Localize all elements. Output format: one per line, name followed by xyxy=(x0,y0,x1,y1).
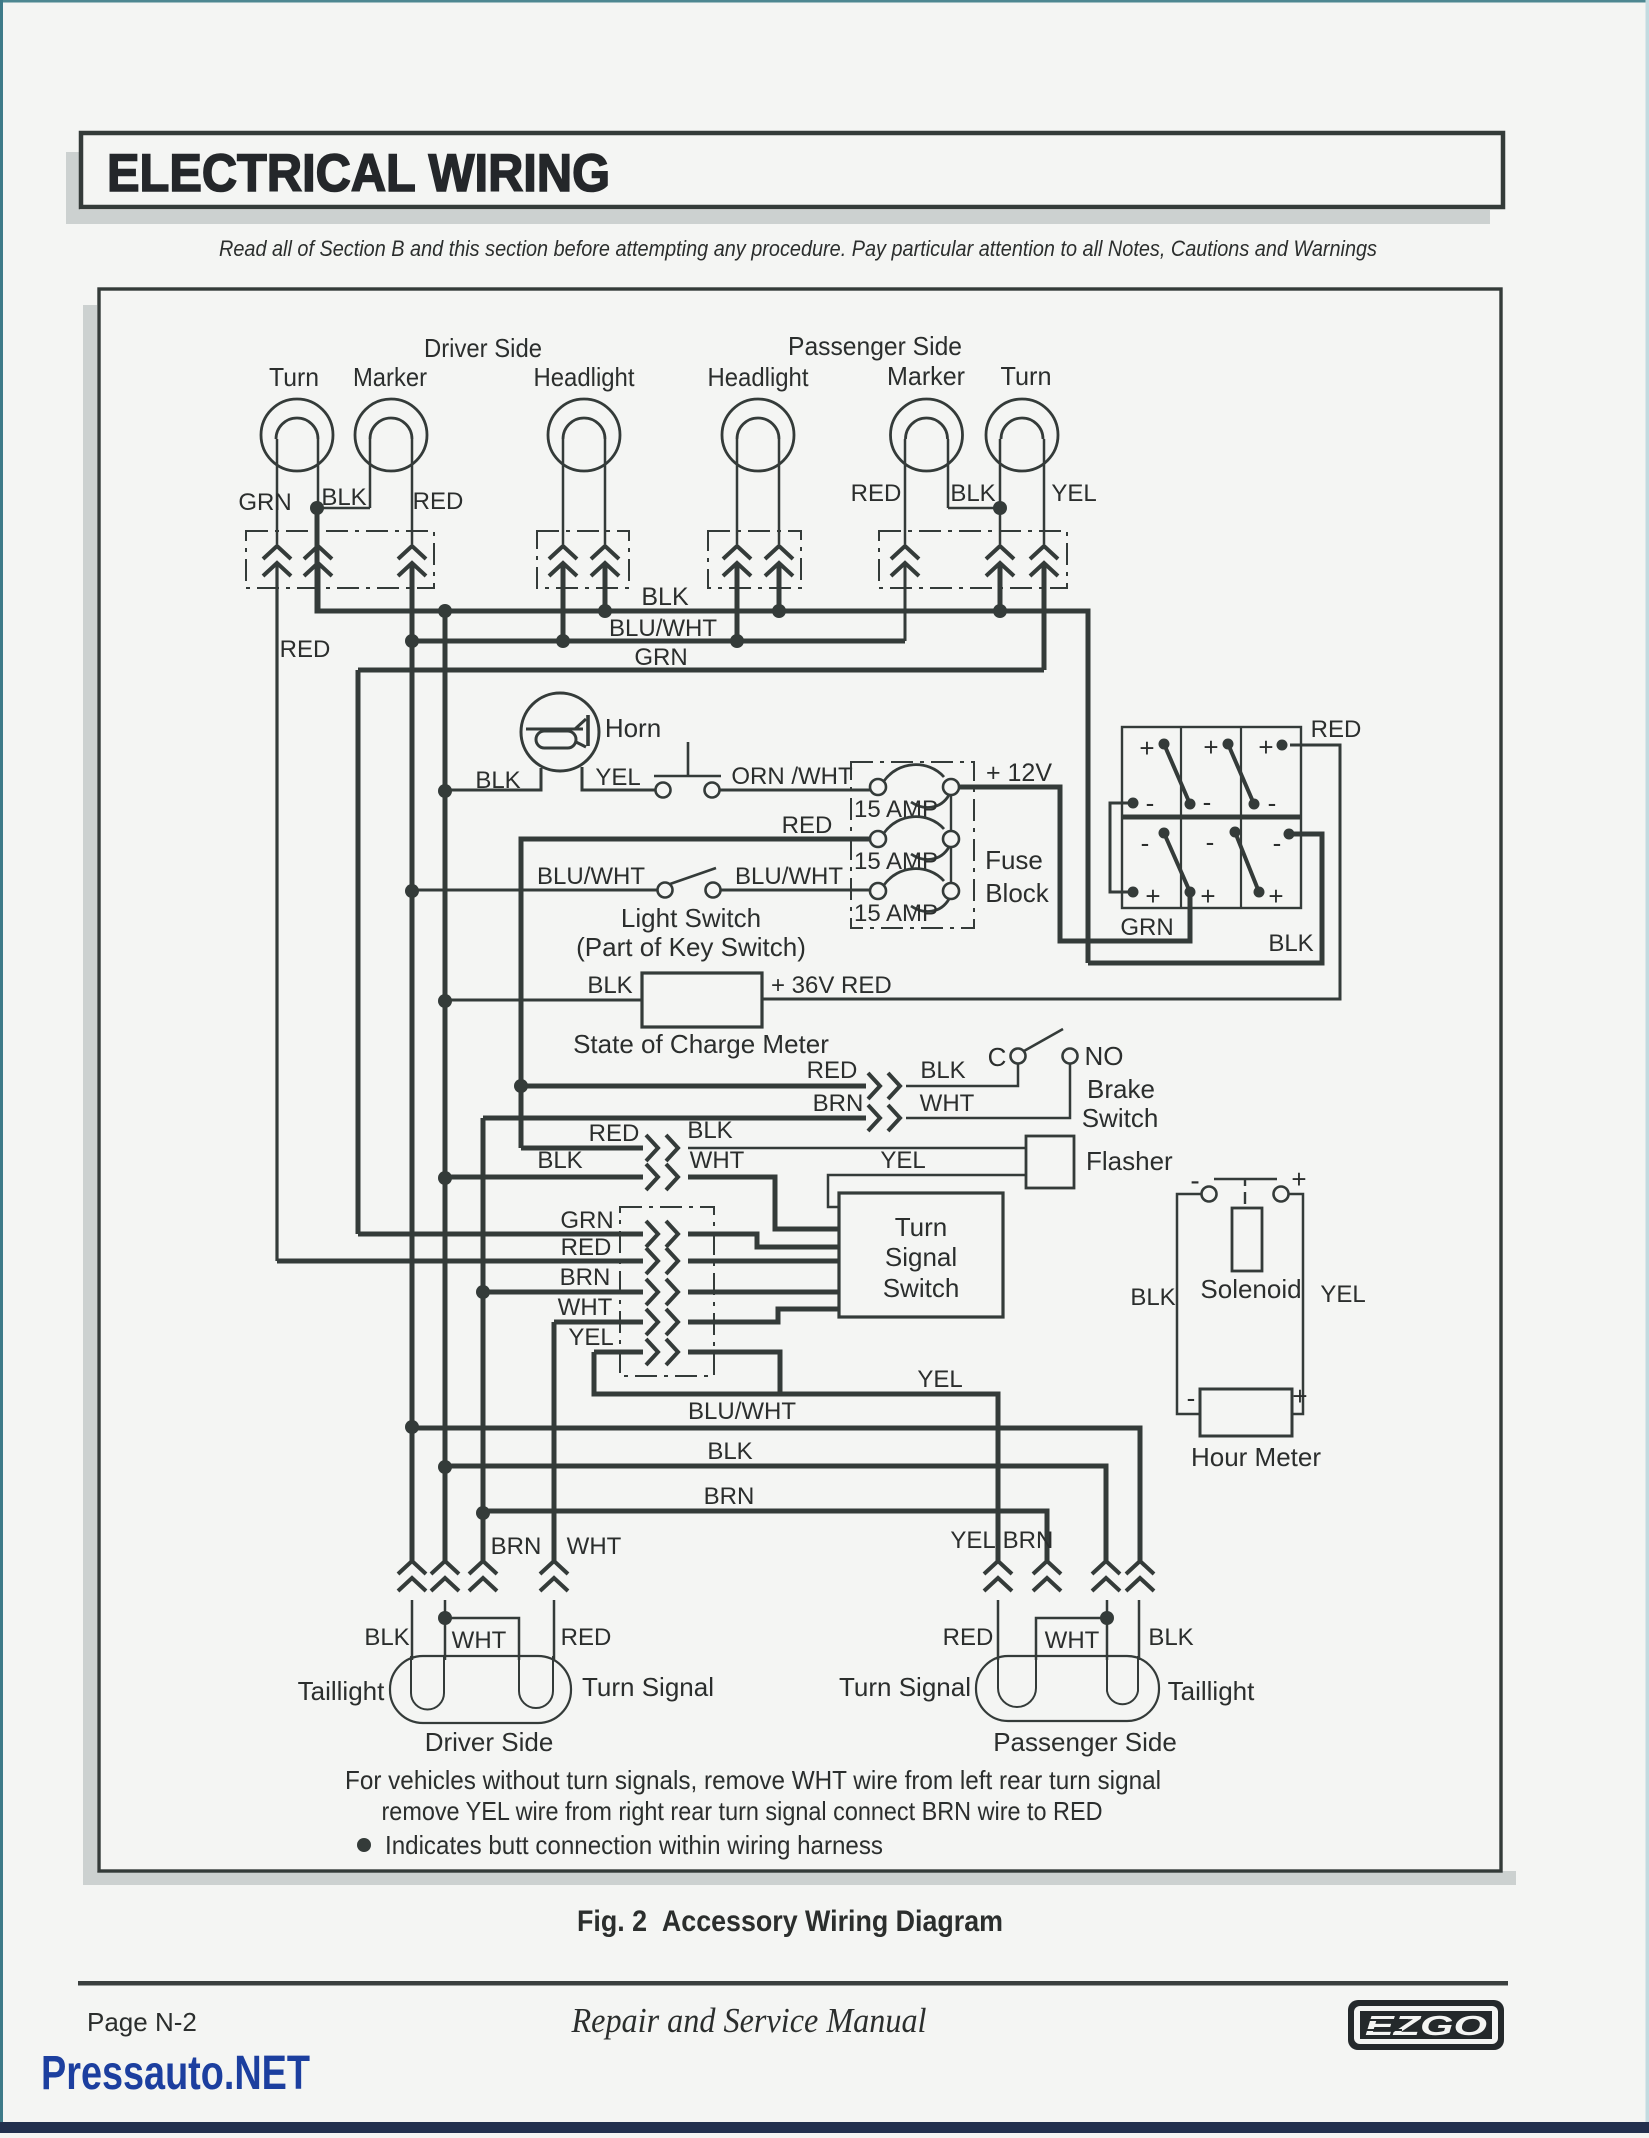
wire horn right leg YEL xyxy=(582,767,656,790)
wire BLU/WHT to fuse xyxy=(720,889,870,892)
svg-text:Block: Block xyxy=(985,878,1050,908)
battery bank dividers xyxy=(1180,727,1182,908)
svg-text:BLU/WHT: BLU/WHT xyxy=(735,863,843,890)
svg-text:Horn: Horn xyxy=(605,713,661,743)
svg-text:YEL: YEL xyxy=(1051,480,1096,507)
svg-text:YEL: YEL xyxy=(1320,1281,1365,1308)
svg-text:remove YEL wire from right rea: remove YEL wire from right rear turn sig… xyxy=(382,1796,1103,1826)
connector brake BRN/WHT xyxy=(868,1105,900,1131)
svg-text:BLK: BLK xyxy=(1130,1284,1175,1311)
connector flasher RED/BLK xyxy=(646,1135,678,1161)
solenoid terminals xyxy=(1202,1187,1217,1202)
wire YEL row xyxy=(594,1350,643,1355)
battery bank outline xyxy=(1122,727,1301,908)
svg-text:Taillight: Taillight xyxy=(298,1676,385,1706)
lamp driver headlight xyxy=(548,399,620,471)
svg-text:BRN: BRN xyxy=(491,1533,542,1560)
passenger rear lamp housing xyxy=(976,1656,1159,1721)
svg-text:-: - xyxy=(1190,1165,1199,1196)
wire horn left leg BLK xyxy=(445,768,541,790)
svg-text:Passenger Side: Passenger Side xyxy=(993,1727,1177,1757)
svg-text:-: - xyxy=(1203,787,1212,817)
svg-text:WHT: WHT xyxy=(452,1627,507,1654)
wire driver marker right lead / BLU-WHT trunk xyxy=(411,439,414,544)
svg-text:-: - xyxy=(1187,1383,1196,1413)
EZGO logo xyxy=(1348,2000,1504,2050)
horn button switch xyxy=(656,783,671,798)
svg-text:BLK: BLK xyxy=(687,1117,732,1144)
wire BLK long run xyxy=(445,1466,1106,1561)
svg-text:WHT: WHT xyxy=(690,1147,745,1174)
battery jumper top 1 xyxy=(1164,744,1190,804)
wire BLU/WHT to light switch xyxy=(412,889,658,892)
svg-text:BRN: BRN xyxy=(1003,1527,1054,1554)
solenoid coil xyxy=(1232,1208,1262,1271)
wire GRN bus drop xyxy=(356,670,361,1234)
svg-text:-: - xyxy=(1268,788,1277,818)
svg-text:Page N-2: Page N-2 xyxy=(87,2007,197,2037)
connector box driver lamps xyxy=(246,531,434,588)
wire driver headlight right lead xyxy=(604,439,607,544)
connector pin BRN xyxy=(646,1279,678,1305)
horn xyxy=(521,693,599,771)
svg-text:Headlight: Headlight xyxy=(534,362,636,392)
svg-text:BLU/WHT: BLU/WHT xyxy=(688,1398,796,1425)
wire passenger turn right lead YEL xyxy=(1043,439,1046,544)
wire driver marker left lead xyxy=(369,439,372,508)
svg-text:BLK: BLK xyxy=(950,480,995,507)
fuse F1 15 AMP xyxy=(884,765,944,781)
wire RED fuse row xyxy=(521,839,870,1148)
svg-text:RED: RED xyxy=(561,1234,612,1261)
hour meter box xyxy=(1200,1389,1292,1436)
svg-text:YEL: YEL xyxy=(917,1366,962,1393)
connector pins driver lamps xyxy=(263,546,291,576)
lamp passenger marker xyxy=(891,399,963,471)
wire ORN/WHT to fuse xyxy=(719,789,870,792)
fuse block box xyxy=(851,762,974,928)
svg-text:Turn: Turn xyxy=(895,1212,948,1242)
svg-text:BLK: BLK xyxy=(1148,1624,1193,1651)
svg-text:GRN: GRN xyxy=(1120,914,1173,941)
wire BLK battery xyxy=(1088,834,1322,963)
battery RED terminal xyxy=(1277,740,1288,751)
battery jumper top 2 xyxy=(1228,744,1254,804)
wire WHT into switch xyxy=(688,1309,839,1322)
header title box xyxy=(81,133,1503,207)
battery jumper bottom 1 xyxy=(1164,833,1190,892)
svg-text:GRN: GRN xyxy=(634,644,687,671)
svg-text:+: + xyxy=(1200,881,1215,911)
wire RED to flasher connector xyxy=(521,1146,643,1151)
page edge left teal line xyxy=(0,0,3,2133)
connector pins passenger headlight xyxy=(723,546,751,576)
svg-text:BLK: BLK xyxy=(707,1438,752,1465)
svg-text:ORN /WHT: ORN /WHT xyxy=(731,763,853,790)
node BLK bus taps xyxy=(438,604,452,618)
svg-text:Signal: Signal xyxy=(885,1242,957,1272)
svg-text:Taillight: Taillight xyxy=(1168,1676,1255,1706)
connector box passenger headlight xyxy=(708,531,801,588)
svg-text:BLU/WHT: BLU/WHT xyxy=(537,863,645,890)
node BLK flasher tap xyxy=(438,1171,452,1185)
driver taillight tube xyxy=(411,1656,444,1710)
wire BLK link passenger xyxy=(948,507,1000,510)
svg-text:NO: NO xyxy=(1085,1041,1124,1071)
wire GRN driver turn left lead xyxy=(276,439,279,544)
wire BLK bus xyxy=(317,508,1088,963)
wire RED row xyxy=(277,1259,643,1264)
svg-text:Switch: Switch xyxy=(883,1273,960,1303)
svg-text:RED: RED xyxy=(851,480,902,507)
svg-text:Solenoid: Solenoid xyxy=(1200,1274,1301,1304)
svg-text:BLU/WHT: BLU/WHT xyxy=(609,615,717,642)
svg-text:BLK: BLK xyxy=(321,484,366,511)
svg-text:WHT: WHT xyxy=(558,1294,613,1321)
connector box driver headlight xyxy=(537,531,629,588)
wire BRN into switch xyxy=(688,1290,839,1295)
svg-text:RED: RED xyxy=(782,812,833,839)
connector pin GRN xyxy=(646,1221,678,1247)
svg-text:GRN: GRN xyxy=(560,1207,613,1234)
battery jumper bottom 2 xyxy=(1235,832,1259,892)
wire BRN trunk vertical xyxy=(481,1118,486,1561)
wire solenoid BLK side xyxy=(1177,1194,1202,1414)
connector pin RED xyxy=(646,1248,678,1274)
wire passenger taillight BLK lead xyxy=(1138,1600,1141,1660)
svg-text:YEL: YEL xyxy=(950,1527,995,1554)
svg-text:RED: RED xyxy=(413,488,464,515)
svg-text:YEL: YEL xyxy=(595,764,640,791)
node BLU/WHT long tap xyxy=(405,1420,419,1434)
svg-text:RED: RED xyxy=(280,636,331,663)
wire BLU/WHT bus xyxy=(412,639,905,644)
wire BRN row xyxy=(483,1290,643,1295)
wire driver headlight left lead xyxy=(562,439,565,544)
svg-text:Indicates butt connection with: Indicates butt connection within wiring … xyxy=(385,1830,883,1860)
wire WHT brake xyxy=(906,1063,1070,1118)
svg-text:Marker: Marker xyxy=(353,362,427,392)
turn signal switch box xyxy=(839,1193,1003,1317)
battery terminals top row xyxy=(1139,732,1283,911)
state of charge meter box xyxy=(642,973,762,1027)
svg-text:Brake: Brake xyxy=(1087,1074,1155,1104)
wire WHT from flasher connector xyxy=(688,1177,839,1229)
wire GRN row xyxy=(358,1232,643,1237)
fuse F2 15 AMP xyxy=(884,817,944,833)
svg-text:+: + xyxy=(1139,733,1154,763)
light switch xyxy=(658,883,673,898)
lamp driver marker xyxy=(355,399,427,471)
svg-text:Repair and Service Manual: Repair and Service Manual xyxy=(571,2001,927,2040)
svg-text:Turn: Turn xyxy=(269,362,319,392)
wire driver turn right lead BLK xyxy=(317,439,320,508)
battery bank mid line xyxy=(1122,815,1301,820)
note bullet xyxy=(357,1838,371,1852)
header box shadow xyxy=(66,152,1490,224)
wire BLK to flasher xyxy=(688,1147,1026,1150)
wire passenger marker right lead xyxy=(947,439,950,508)
svg-text:ELECTRICAL WIRING: ELECTRICAL WIRING xyxy=(107,144,610,203)
svg-text:EZGO: EZGO xyxy=(1365,2010,1487,2041)
wire BLK link driver xyxy=(318,507,370,510)
node BLU/WHT light switch tap xyxy=(405,884,419,898)
svg-text:BLK: BLK xyxy=(1268,930,1313,957)
wire GRN bus xyxy=(358,668,1044,673)
wire passenger marker left lead xyxy=(904,439,907,544)
passenger turn signal tube xyxy=(998,1656,1036,1707)
wire driver turn RED lead xyxy=(553,1600,556,1660)
svg-text:Fuse: Fuse xyxy=(985,845,1043,875)
svg-text:RED: RED xyxy=(1311,716,1362,743)
wire driver taillight BLK lead xyxy=(411,1600,414,1660)
svg-text:+: + xyxy=(1145,881,1160,911)
svg-text:Turn Signal: Turn Signal xyxy=(839,1672,971,1702)
svg-text:For vehicles without turn sign: For vehicles without turn signals, remov… xyxy=(345,1765,1161,1795)
svg-text:Turn: Turn xyxy=(1001,361,1052,391)
svg-text:Driver Side: Driver Side xyxy=(424,333,542,363)
svg-text:BRN: BRN xyxy=(704,1483,755,1510)
connector brake RED/BLK xyxy=(868,1073,900,1099)
svg-text:Marker: Marker xyxy=(887,361,965,391)
wire BLK trunk vertical xyxy=(443,611,448,1561)
wire RED into switch xyxy=(688,1259,839,1264)
svg-text:C: C xyxy=(988,1042,1007,1072)
wire GRN into switch xyxy=(688,1234,839,1247)
svg-text:+ 36V RED: + 36V RED xyxy=(771,972,892,999)
svg-text:BLK: BLK xyxy=(364,1624,409,1651)
node BLK meter tap xyxy=(438,994,452,1008)
svg-text:-: - xyxy=(1273,828,1282,858)
svg-text:Passenger Side: Passenger Side xyxy=(788,331,962,361)
node BRN long tap xyxy=(476,1506,490,1520)
connector pins passenger rear xyxy=(984,1561,1012,1591)
svg-text:BLK: BLK xyxy=(920,1057,965,1084)
node BLU/WHT bus taps xyxy=(405,634,419,648)
svg-text:State of Charge Meter: State of Charge Meter xyxy=(573,1029,829,1059)
wire passenger headlight left lead xyxy=(736,439,739,544)
svg-text:WHT: WHT xyxy=(567,1533,622,1560)
svg-text:Fig. 2 Accessory Wiring Diagr: Fig. 2 Accessory Wiring Diagram xyxy=(577,1905,1003,1938)
svg-text:+: + xyxy=(1268,881,1283,911)
svg-text:GRN: GRN xyxy=(238,489,291,516)
wire WHT row xyxy=(554,1320,643,1325)
svg-text:RED: RED xyxy=(807,1057,858,1084)
footer rule xyxy=(78,1981,1508,1986)
svg-text:RED: RED xyxy=(561,1624,612,1651)
svg-text:Hour Meter: Hour Meter xyxy=(1191,1442,1321,1472)
flasher box xyxy=(1026,1136,1074,1188)
svg-text:BRN: BRN xyxy=(560,1264,611,1291)
svg-text:BLK: BLK xyxy=(641,583,689,611)
svg-text:Turn Signal: Turn Signal xyxy=(582,1672,714,1702)
wire YEL after connector xyxy=(688,1352,780,1394)
lamp driver turn xyxy=(261,399,333,471)
battery left series link xyxy=(1110,803,1133,892)
wire YEL long run xyxy=(594,1352,998,1561)
lamp passenger turn xyxy=(986,399,1058,471)
svg-text:+ 12V: + 12V xyxy=(986,759,1052,787)
wire passenger turn RED lead xyxy=(997,1600,1000,1660)
svg-text:Driver Side: Driver Side xyxy=(425,1727,554,1757)
svg-text:WHT: WHT xyxy=(920,1090,975,1117)
fuse link chain xyxy=(950,795,952,883)
svg-text:Read all of Section B and this: Read all of Section B and this section b… xyxy=(219,236,1377,261)
page bottom navy bar xyxy=(0,2122,1649,2133)
svg-text:(Part of Key Switch): (Part of Key Switch) xyxy=(576,932,806,962)
node BLK long tap xyxy=(438,1460,452,1474)
connector box passenger lamps xyxy=(879,531,1067,588)
wire BLK row to flasher connector xyxy=(445,1175,643,1180)
wire driver WHT jumper xyxy=(445,1618,519,1660)
node BRN row tap xyxy=(476,1285,490,1299)
wire BRN to brake switch xyxy=(483,1116,866,1121)
svg-text:+: + xyxy=(1291,1164,1306,1194)
svg-text:Headlight: Headlight xyxy=(708,362,810,392)
wire driver WHT lead xyxy=(444,1600,447,1660)
wire solenoid YEL side xyxy=(1288,1194,1303,1414)
node horn BLK tap xyxy=(438,784,452,798)
wire WHT trunk vertical xyxy=(552,1322,557,1561)
connector pin WHT xyxy=(646,1309,678,1335)
svg-text:Flasher: Flasher xyxy=(1086,1146,1173,1176)
passenger taillight tube xyxy=(1107,1656,1138,1704)
svg-text:Pressauto.NET: Pressauto.NET xyxy=(41,2047,310,2100)
node butt passenger BLK xyxy=(993,501,1007,515)
fuse F3 15 AMP xyxy=(884,869,944,885)
svg-text:RED: RED xyxy=(589,1120,640,1147)
svg-text:Switch: Switch xyxy=(1082,1103,1159,1133)
svg-text:-: - xyxy=(1141,828,1150,858)
svg-text:+: + xyxy=(1203,732,1218,762)
wire BLU/WHT long run xyxy=(412,1428,1140,1561)
svg-text:15 AMP: 15 AMP xyxy=(854,900,938,927)
driver rear lamp housing xyxy=(390,1656,571,1723)
diagram box shadow xyxy=(83,305,1516,1885)
svg-text:-: - xyxy=(1206,827,1215,857)
wire passenger WHT jumper xyxy=(1036,1618,1107,1660)
svg-text:YEL: YEL xyxy=(880,1147,925,1174)
wire BLK brake xyxy=(906,1063,1018,1086)
connector pins driver headlight xyxy=(549,546,577,576)
node butt driver WHT xyxy=(438,1611,452,1625)
node butt passenger WHT xyxy=(1100,1611,1114,1625)
connector pins driver rear xyxy=(398,1561,426,1591)
wire passenger headlight right lead xyxy=(778,439,781,544)
lamp passenger headlight xyxy=(722,399,794,471)
brake switch contacts xyxy=(1011,1049,1026,1064)
svg-text:BLK: BLK xyxy=(537,1147,582,1174)
driver turn signal tube xyxy=(519,1656,553,1708)
wire YEL flasher xyxy=(828,1175,1026,1207)
svg-text:-: - xyxy=(1146,788,1155,818)
wire passenger WHT lead xyxy=(1106,1600,1109,1660)
connector pin YEL xyxy=(646,1339,678,1365)
svg-text:YEL: YEL xyxy=(568,1324,613,1351)
svg-text:+: + xyxy=(1292,1381,1307,1411)
wire passenger turn left lead BLK xyxy=(999,439,1002,544)
svg-text:BLK: BLK xyxy=(475,767,520,794)
svg-text:RED: RED xyxy=(943,1624,994,1651)
svg-text:BRN: BRN xyxy=(813,1090,864,1117)
connector box turn signal switch xyxy=(620,1207,714,1376)
connector pins passenger lamps xyxy=(891,546,919,576)
wire +36V RED to battery xyxy=(762,745,1340,999)
svg-text:WHT: WHT xyxy=(1045,1627,1100,1654)
page edge top teal line xyxy=(0,0,1649,3)
wire RED to brake switch xyxy=(521,1084,866,1089)
connector flasher BLK/WHT xyxy=(646,1164,678,1190)
wire +12V xyxy=(959,787,1190,941)
page edge right light line xyxy=(1646,0,1649,2133)
node butt driver BLK xyxy=(310,501,324,515)
diagram frame box xyxy=(99,289,1501,1871)
svg-text:BLK: BLK xyxy=(587,972,632,999)
wire BRN long run xyxy=(483,1511,1047,1561)
svg-text:+: + xyxy=(1258,732,1273,762)
node RED brake tap xyxy=(514,1079,528,1093)
svg-text:Light Switch: Light Switch xyxy=(621,903,761,933)
wire BLK to charge meter xyxy=(445,999,642,1002)
